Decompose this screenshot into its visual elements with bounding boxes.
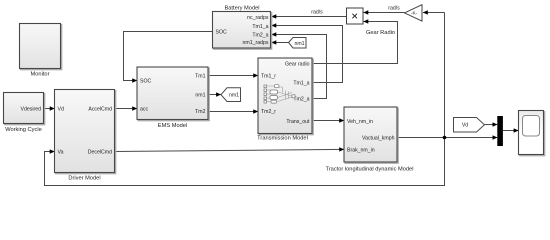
svg-text:Tm1_a: Tm1_a bbox=[252, 24, 268, 30]
svg-text:Tractor longitudinal dynamic M: Tractor longitudinal dynamic Model bbox=[326, 167, 414, 173]
svg-text:Battery Model: Battery Model bbox=[224, 6, 259, 12]
svg-text:Veh_nm_in: Veh_nm_in bbox=[347, 119, 373, 125]
svg-text:Tm1: Tm1 bbox=[195, 73, 205, 79]
svg-text:Va: Va bbox=[58, 149, 64, 155]
svg-text:nm1: nm1 bbox=[294, 41, 304, 47]
svg-text:Gear Radio: Gear Radio bbox=[366, 30, 395, 36]
svg-text:DecelCmd: DecelCmd bbox=[88, 149, 112, 155]
svg-text:Tm2_a: Tm2_a bbox=[252, 32, 268, 38]
svg-text:acc: acc bbox=[140, 106, 148, 112]
svg-text:rad/s: rad/s bbox=[311, 9, 323, 15]
svg-text:Working Cycle: Working Cycle bbox=[5, 127, 42, 133]
svg-text:Trans_out: Trans_out bbox=[286, 119, 310, 125]
svg-text:SOC: SOC bbox=[216, 29, 227, 35]
svg-text:nc_radps: nc_radps bbox=[247, 15, 269, 21]
svg-text:Monitor: Monitor bbox=[31, 72, 50, 78]
svg-text:nm1: nm1 bbox=[195, 93, 205, 99]
svg-text:SOC: SOC bbox=[140, 78, 151, 84]
svg-text:Tm2_a: Tm2_a bbox=[293, 96, 309, 102]
svg-text:Vd: Vd bbox=[462, 123, 468, 129]
svg-text:Tm1_r: Tm1_r bbox=[261, 73, 276, 79]
svg-text:EMS Model: EMS Model bbox=[158, 123, 187, 129]
svg-text:-K-: -K- bbox=[411, 11, 418, 17]
svg-text:Brak_nm_in: Brak_nm_in bbox=[347, 147, 375, 153]
svg-text:nm1_radps: nm1_radps bbox=[243, 40, 269, 46]
svg-text:Vactual_kmph: Vactual_kmph bbox=[362, 135, 395, 141]
svg-text:AccelCmd: AccelCmd bbox=[88, 106, 112, 112]
svg-text:rad/s: rad/s bbox=[388, 5, 400, 11]
svg-text:Gear radio: Gear radio bbox=[285, 61, 310, 67]
svg-text:Tm2: Tm2 bbox=[195, 109, 205, 115]
svg-text:Transmission Model: Transmission Model bbox=[257, 136, 308, 142]
svg-text:Vdesired: Vdesired bbox=[21, 106, 42, 112]
svg-text:Vd: Vd bbox=[58, 106, 64, 112]
svg-text:Driver Model: Driver Model bbox=[68, 176, 100, 182]
svg-text:Tm1_a: Tm1_a bbox=[293, 80, 309, 86]
svg-text:nm1: nm1 bbox=[229, 93, 239, 99]
svg-text:Tm2_r: Tm2_r bbox=[261, 109, 276, 115]
